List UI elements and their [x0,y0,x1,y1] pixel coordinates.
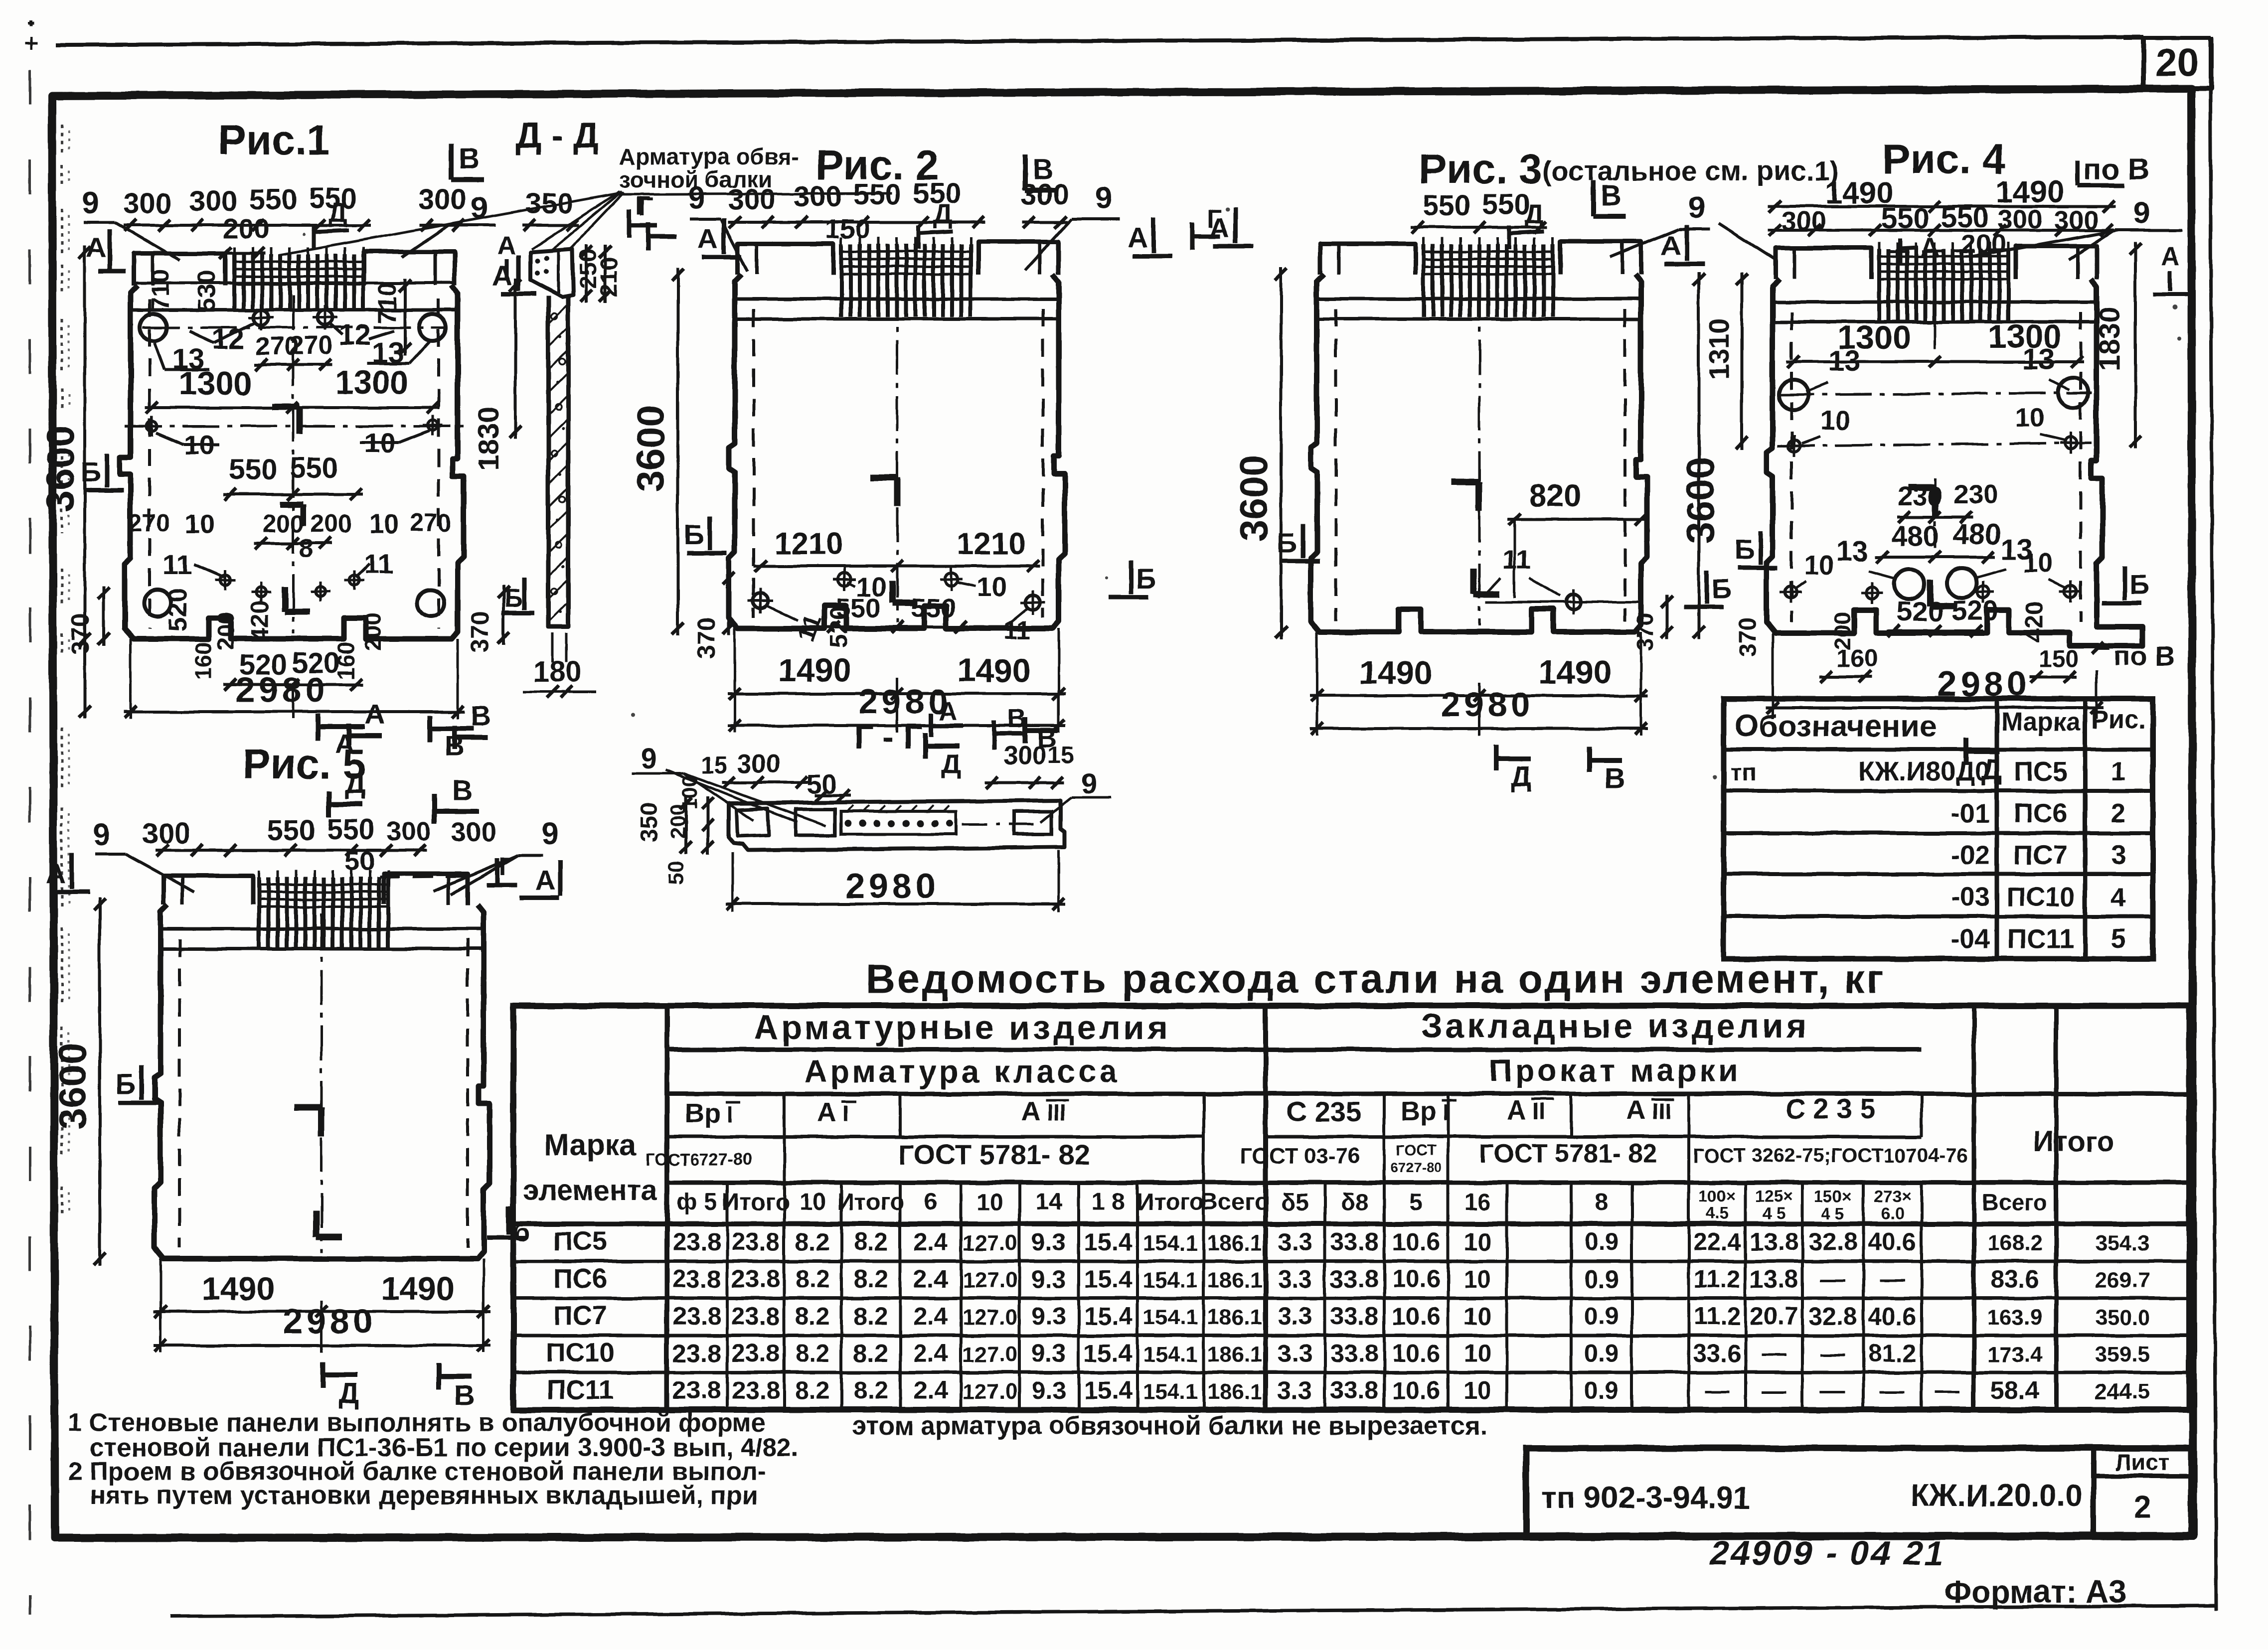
svg-text:ф 5: ф 5 [676,1189,717,1215]
fig5 marks D V top [326,791,331,817]
svg-text:23.8: 23.8 [672,1340,721,1367]
fig1 embed item 12 right [318,310,332,325]
svg-text:по В: по В [2113,640,2175,672]
svg-text:Формат: А3: Формат: А3 [1944,1574,2126,1610]
svg-text:3.3: 3.3 [1278,1302,1312,1330]
svg-text:9.3: 9.3 [1031,1228,1066,1256]
fig4 orientation gamma [1908,484,1936,491]
svg-text:13.8: 13.8 [1750,1228,1798,1256]
svg-text:15.4: 15.4 [1084,1265,1133,1293]
fig1 embed item 10 mid-right [428,420,438,430]
svg-text:ПС5: ПС5 [2014,756,2068,786]
svg-text:300: 300 [419,183,467,216]
svg-text:550: 550 [327,813,375,846]
svg-text:550: 550 [853,178,902,211]
fig2 bottom marks D and V [923,733,928,758]
svg-text:3600: 3600 [50,1043,94,1130]
svg-text:Ведомость расхода стали на оди: Ведомость расхода стали на один элемент,… [866,956,1886,1002]
svg-text:0.9: 0.9 [1584,1340,1619,1367]
svg-text:1310: 1310 [1703,318,1735,380]
svg-text:Д: Д [934,199,953,229]
svg-text:3600: 3600 [629,405,672,492]
svg-text:33.8: 33.8 [1330,1265,1378,1293]
steel table header horizontal lines [667,1048,1922,1052]
svg-text:10.6: 10.6 [1392,1265,1440,1293]
svg-text:ГОСТ 5781- 82: ГОСТ 5781- 82 [898,1139,1090,1170]
svg-text:1490: 1490 [1359,654,1433,691]
svg-text:А: А [46,858,66,889]
svg-text:420: 420 [2020,601,2048,642]
fig3 section mark V top [1591,180,1596,216]
svg-text:2.4: 2.4 [913,1265,948,1293]
svg-text:10: 10 [2023,548,2053,578]
fig1 mark gamma small [280,501,303,507]
fig1 leader 9 right [449,224,469,227]
svg-text:12: 12 [212,323,245,355]
section G-G second rect [796,809,835,835]
svg-text:23.8: 23.8 [672,1228,721,1256]
svg-text:13: 13 [1828,345,1861,377]
svg-text:С 2 3 5: С 2 3 5 [1785,1093,1876,1124]
svg-text:23.8: 23.8 [672,1265,721,1293]
svg-text:-03: -03 [1951,882,1990,912]
svg-text:Закладные изделия: Закладные изделия [1421,1007,1809,1045]
svg-text:Г: Г [636,191,650,220]
fig5 marks G A right [495,858,500,883]
svg-text:4.5: 4.5 [1706,1204,1729,1222]
svg-text:Б: Б [2129,569,2149,600]
fig5 dashed edge lines [178,939,181,1248]
svg-text:4: 4 [2111,882,2126,912]
fig4 rebar comb [1877,249,1881,322]
svg-text:12: 12 [339,319,371,351]
svg-text:10: 10 [184,509,214,539]
svg-text:10.6: 10.6 [1392,1376,1440,1404]
svg-text:154.1: 154.1 [1143,1268,1198,1293]
svg-text:163.9: 163.9 [1987,1305,2042,1330]
svg-text:Марка: Марка [2001,708,2081,737]
svg-text:10: 10 [1463,1265,1491,1293]
sheet outer bottom edge line [170,1606,2216,1617]
svg-text:ПС7: ПС7 [2014,840,2068,870]
svg-text:480: 480 [1953,518,2001,551]
svg-text:1490: 1490 [381,1270,455,1307]
svg-text:550: 550 [911,593,956,623]
svg-text:3.3: 3.3 [1278,1228,1312,1256]
svg-text:269.7: 269.7 [2095,1268,2150,1293]
handwritten archive number [1707,1534,1950,1572]
fig4 extension lines bottom [1772,633,1774,719]
svg-text:Б: Б [1712,573,1732,604]
svg-text:200: 200 [360,613,386,651]
svg-text:КЖ.И80Д0: КЖ.И80Д0 [1858,756,1990,786]
svg-text:15: 15 [1047,743,1074,769]
svg-text:10: 10 [799,1189,825,1215]
svg-text:Б: Б [1277,527,1297,558]
svg-text:0.9: 0.9 [1584,1376,1619,1404]
svg-text:33.8: 33.8 [1330,1302,1378,1330]
svg-text:Всего: Всего [1982,1189,2047,1215]
fig1 mark D top [312,224,316,249]
fig1 bottom marks A and V [316,714,321,741]
svg-text:Б: Б [1136,563,1156,594]
svg-text:273×: 273× [1874,1187,1911,1205]
svg-text:127.0: 127.0 [963,1305,1017,1330]
fig3 rebar comb [1422,244,1426,317]
fig3 center axis [1478,284,1481,626]
section D-D mark G [627,209,632,238]
svg-text:ГОСТ 03-76: ГОСТ 03-76 [1240,1144,1360,1168]
svg-text:9: 9 [93,818,110,852]
svg-text:0.9: 0.9 [1584,1228,1619,1256]
svg-text:-01: -01 [1951,798,1990,828]
fig5 rebar comb [257,877,261,950]
svg-text:370: 370 [692,617,720,658]
svg-text:2: 2 [2111,798,2126,828]
svg-text:23.8: 23.8 [672,1376,721,1404]
svg-text:530: 530 [193,270,221,311]
fig4 panel body outline [1767,279,2142,646]
svg-text:I: I [727,1101,733,1127]
fig1 lifting hole top-right [419,314,446,341]
section G-G beam outline [729,800,1065,850]
fig2 tab row [738,244,833,275]
svg-text:230: 230 [1953,479,1998,509]
svg-text:83.6: 83.6 [1990,1265,2039,1293]
fig1 leader 9 left [84,221,115,224]
fig4 mark D bottom [1963,738,1968,763]
svg-text:Арматура обвя-: Арматура обвя- [619,144,799,169]
svg-text:4 5: 4 5 [1763,1204,1785,1222]
fig5 bottom marks D V [321,1361,325,1387]
svg-text:1490: 1490 [202,1270,275,1307]
svg-text:В: В [471,700,490,732]
svg-text:40.6: 40.6 [1868,1302,1916,1330]
svg-text:тп: тп [1731,759,1757,786]
fig2 orientation L [889,581,896,603]
svg-text:Рис.1: Рис.1 [218,117,330,163]
svg-text:10: 10 [1463,1302,1491,1330]
svg-text:186.1: 186.1 [1207,1343,1262,1367]
svg-text:300: 300 [728,183,776,216]
svg-text:127.0: 127.0 [963,1379,1017,1404]
svg-text:Рис. 4: Рис. 4 [1882,136,2006,182]
section G-G top marks A V [929,714,934,737]
svg-text:150×: 150× [1814,1187,1851,1205]
svg-text:125×: 125× [1756,1187,1792,1205]
svg-text:—: — [1705,1376,1730,1404]
fig5 extension lines bottom [160,1259,162,1352]
designation table rows [1724,748,2153,751]
svg-text:186.1: 186.1 [1207,1379,1262,1404]
section G-G dashed axis right [962,823,1042,826]
svg-text:ПС6: ПС6 [553,1264,607,1294]
svg-text:(остальное см. рис.1): (остальное см. рис.1) [1542,155,1839,186]
svg-text:100: 100 [678,775,701,810]
svg-text:А: А [698,223,718,254]
svg-text:А: А [535,865,555,896]
svg-text:0.9: 0.9 [1584,1302,1619,1330]
svg-text:10.6: 10.6 [1392,1302,1440,1330]
svg-text:ПС11: ПС11 [2007,924,2075,954]
svg-text:3600: 3600 [38,425,82,512]
designation table columns [1995,699,1999,959]
svg-text:Д: Д [338,1377,359,1410]
corner registration cross top-left [25,42,38,45]
title block box [1526,1448,2191,1536]
svg-text:9.3: 9.3 [1031,1265,1066,1293]
fig1 embed item 12 left [254,310,269,325]
scan specks [2173,304,2178,309]
svg-text:10.6: 10.6 [1392,1228,1440,1256]
svg-text:нять путем установки деревя: нять путем установки деревянных вкладыше… [90,1481,758,1510]
svg-text:10: 10 [1463,1340,1491,1367]
svg-text:8.2: 8.2 [795,1340,830,1367]
fig5 panel body outline [155,904,489,1259]
svg-text:1830: 1830 [2094,306,2126,371]
svg-text:58.4: 58.4 [1990,1376,2039,1404]
fig2 section mark V top [1022,154,1027,190]
svg-text:2.4: 2.4 [913,1228,948,1256]
svg-text:Б: Б [1735,534,1755,565]
svg-text:11: 11 [1003,616,1031,645]
fig1 orientation mark L bottom [282,586,288,611]
svg-text:168.2: 168.2 [1987,1231,2042,1255]
svg-text:5: 5 [2111,924,2126,954]
fig3 tab row [1320,244,1416,275]
svg-text:1300: 1300 [335,364,409,401]
svg-text:550: 550 [1482,188,1531,221]
svg-text:III: III [1652,1098,1671,1124]
svg-text:8.2: 8.2 [795,1302,830,1330]
svg-text:270: 270 [129,509,170,537]
svg-text:354.3: 354.3 [2095,1231,2150,1255]
svg-text:23.8: 23.8 [731,1228,780,1256]
svg-text:150: 150 [825,214,870,244]
svg-text:186.1: 186.1 [1207,1268,1262,1293]
svg-text:2980: 2980 [235,670,329,709]
svg-text:Д: Д [344,767,365,800]
section D-D head [530,249,573,297]
svg-text:820: 820 [1529,479,1581,513]
fig5 orientation gamma [294,1104,322,1111]
svg-text:—: — [1762,1376,1786,1404]
svg-text:этом арматура обвязочной ба: этом арматура обвязочной балки не выреза… [852,1411,1487,1440]
svg-text:I: I [842,1100,849,1126]
fig5 center axis [321,914,323,1253]
title block list cell [2091,1448,2097,1536]
svg-text:В: В [454,1379,475,1412]
svg-text:81.2: 81.2 [1868,1340,1916,1367]
svg-text:Прокат марки: Прокат марки [1489,1052,1741,1088]
svg-text:А: А [1626,1095,1646,1125]
fig4 tab row [1776,248,1871,279]
fig3 orientation gamma [1452,478,1479,485]
svg-text:3.3: 3.3 [1278,1340,1312,1367]
svg-text:20.7: 20.7 [1750,1302,1798,1330]
svg-text:Д: Д [941,748,961,779]
svg-text:710: 710 [146,269,174,310]
svg-text:—: — [1762,1340,1786,1367]
fig4 center holes [1894,569,1924,599]
svg-text:359.5: 359.5 [2095,1343,2150,1367]
svg-text:Всего: Всего [1201,1189,1269,1215]
svg-text:23.8: 23.8 [731,1265,780,1293]
svg-text:11: 11 [162,549,192,580]
svg-text:Арматура класса: Арматура класса [804,1053,1120,1089]
svg-text:9: 9 [641,743,657,775]
svg-text:10: 10 [2015,403,2045,433]
svg-text:15.4: 15.4 [1084,1340,1133,1367]
svg-text:Рис.: Рис. [2091,706,2146,735]
svg-text:16: 16 [1464,1189,1490,1215]
svg-text:9.3: 9.3 [1031,1340,1066,1367]
fig1 section mark V top [449,144,454,179]
fig2 orientation gamma [870,474,897,481]
svg-text:15.4: 15.4 [1084,1302,1133,1330]
svg-text:2.4: 2.4 [913,1340,948,1367]
fig2 extension lines bottom [734,628,736,733]
svg-text:9: 9 [1688,191,1705,225]
svg-text:6.0: 6.0 [1881,1204,1904,1222]
svg-text:4 5: 4 5 [1821,1204,1844,1222]
svg-text:154.1: 154.1 [1143,1379,1198,1404]
svg-text:9.3: 9.3 [1031,1302,1066,1330]
svg-text:8.2: 8.2 [853,1376,888,1404]
svg-text:186.1: 186.1 [1207,1305,1262,1330]
fig1 bottom anchors [220,575,230,585]
fig1 dashed edge lines [148,299,151,629]
svg-text:8.2: 8.2 [853,1302,888,1330]
svg-text:1830: 1830 [473,406,505,470]
svg-text:5: 5 [1410,1189,1423,1215]
svg-text:244.5: 244.5 [2095,1379,2150,1404]
svg-text:—: — [1820,1340,1845,1367]
svg-text:370: 370 [1735,617,1761,657]
svg-text:11.2: 11.2 [1694,1265,1741,1293]
fig3 orientation L [1470,568,1477,594]
svg-text:200: 200 [223,213,269,244]
svg-text:2980: 2980 [858,682,952,721]
steel table outer border [513,1006,2189,1410]
svg-text:23.8: 23.8 [672,1302,721,1330]
svg-text:10.6: 10.6 [1392,1340,1440,1367]
fig1 top dimension line [124,224,371,227]
svg-text:1300: 1300 [179,365,252,402]
steel table data row lines [513,1260,2189,1263]
svg-text:23.8: 23.8 [731,1302,780,1330]
svg-text:КЖ.И.20.0.0: КЖ.И.20.0.0 [1911,1479,2083,1513]
fig3 extension lines bottom [1316,632,1318,736]
svg-text:1490: 1490 [958,652,1031,689]
fig5 marks A V above title [346,724,351,748]
svg-text:370: 370 [1632,613,1658,651]
svg-text:2980: 2980 [283,1302,377,1341]
svg-text:0.9: 0.9 [1584,1265,1619,1293]
svg-text:А: А [2161,242,2180,271]
svg-text:ГОСТ: ГОСТ [1396,1142,1436,1159]
svg-text:9: 9 [2133,196,2150,230]
svg-text:10: 10 [1820,406,1850,436]
svg-text:8.2: 8.2 [795,1265,830,1293]
svg-text:ПС10: ПС10 [2006,882,2075,912]
svg-text:127.0: 127.0 [963,1268,1017,1293]
svg-text:200: 200 [310,510,351,538]
fig1 extension lines bottom [130,639,132,719]
svg-text:173.4: 173.4 [1987,1343,2043,1367]
svg-text:24909 - 04 21: 24909 - 04 21 [1707,1534,1950,1572]
svg-text:127.0: 127.0 [963,1231,1017,1255]
svg-text:Лист: Лист [2115,1449,2170,1475]
svg-text:1 8: 1 8 [1092,1189,1125,1215]
svg-text:-04: -04 [1951,924,1990,954]
svg-text:15.4: 15.4 [1084,1228,1133,1256]
fig4 lifting holes top [1779,380,1809,410]
fig1 panel PS5 body outline [120,286,464,639]
svg-text:Марка: Марка [544,1128,637,1162]
svg-text:2: 2 [2133,1489,2151,1525]
svg-text:6: 6 [924,1189,938,1215]
svg-text:6727-80: 6727-80 [1391,1160,1442,1175]
svg-text:Итого: Итого [837,1189,904,1215]
section G-G dotted strip [841,811,956,834]
svg-text:9: 9 [1082,767,1098,800]
svg-text:Арматурные изделия: Арматурные изделия [754,1009,1170,1047]
fig4 dashed edge lines [1790,312,1793,622]
svg-text:370: 370 [466,611,494,652]
svg-text:10: 10 [1463,1228,1491,1256]
svg-text:А: А [497,231,516,260]
svg-text:14: 14 [1035,1189,1062,1215]
svg-text:300: 300 [124,187,172,220]
svg-text:2.4: 2.4 [913,1302,948,1330]
svg-text:230: 230 [1898,481,1943,511]
svg-text:Б: Б [116,1068,136,1099]
svg-text:I: I [1443,1099,1449,1125]
section G-G left notch [737,808,769,836]
fig2 dashed edge lines [752,309,755,618]
svg-text:9: 9 [542,817,559,851]
svg-text:1210: 1210 [957,527,1025,561]
svg-text:1210: 1210 [774,527,843,561]
svg-text:А: А [492,260,512,291]
svg-text:А: А [1507,1095,1526,1125]
svg-text:А: А [939,697,958,726]
svg-text:15: 15 [700,752,727,779]
svg-text:520: 520 [163,589,192,632]
svg-text:—: — [1935,1376,1960,1404]
svg-text:Вр: Вр [1401,1096,1437,1126]
svg-text:180: 180 [533,656,582,688]
fig3 dashed edge lines [1334,309,1337,621]
svg-text:40.6: 40.6 [1868,1228,1916,1256]
section D-D dim 180 [551,633,554,663]
svg-text:ПС6: ПС6 [2014,798,2068,828]
fig4 center axis partial [1934,314,1937,349]
svg-text:δ8: δ8 [1340,1189,1368,1215]
svg-text:В: В [1007,705,1026,734]
svg-text:1490: 1490 [1539,654,1612,691]
svg-text:8: 8 [299,534,314,563]
svg-text:В: В [452,774,473,807]
svg-text:А: А [1021,1096,1041,1126]
svg-text:160: 160 [1836,644,1878,672]
svg-text:550: 550 [290,451,338,484]
svg-text:270: 270 [290,331,333,360]
svg-text:550: 550 [267,814,316,847]
svg-text:II: II [1532,1098,1545,1124]
svg-text:10: 10 [976,1189,1003,1215]
